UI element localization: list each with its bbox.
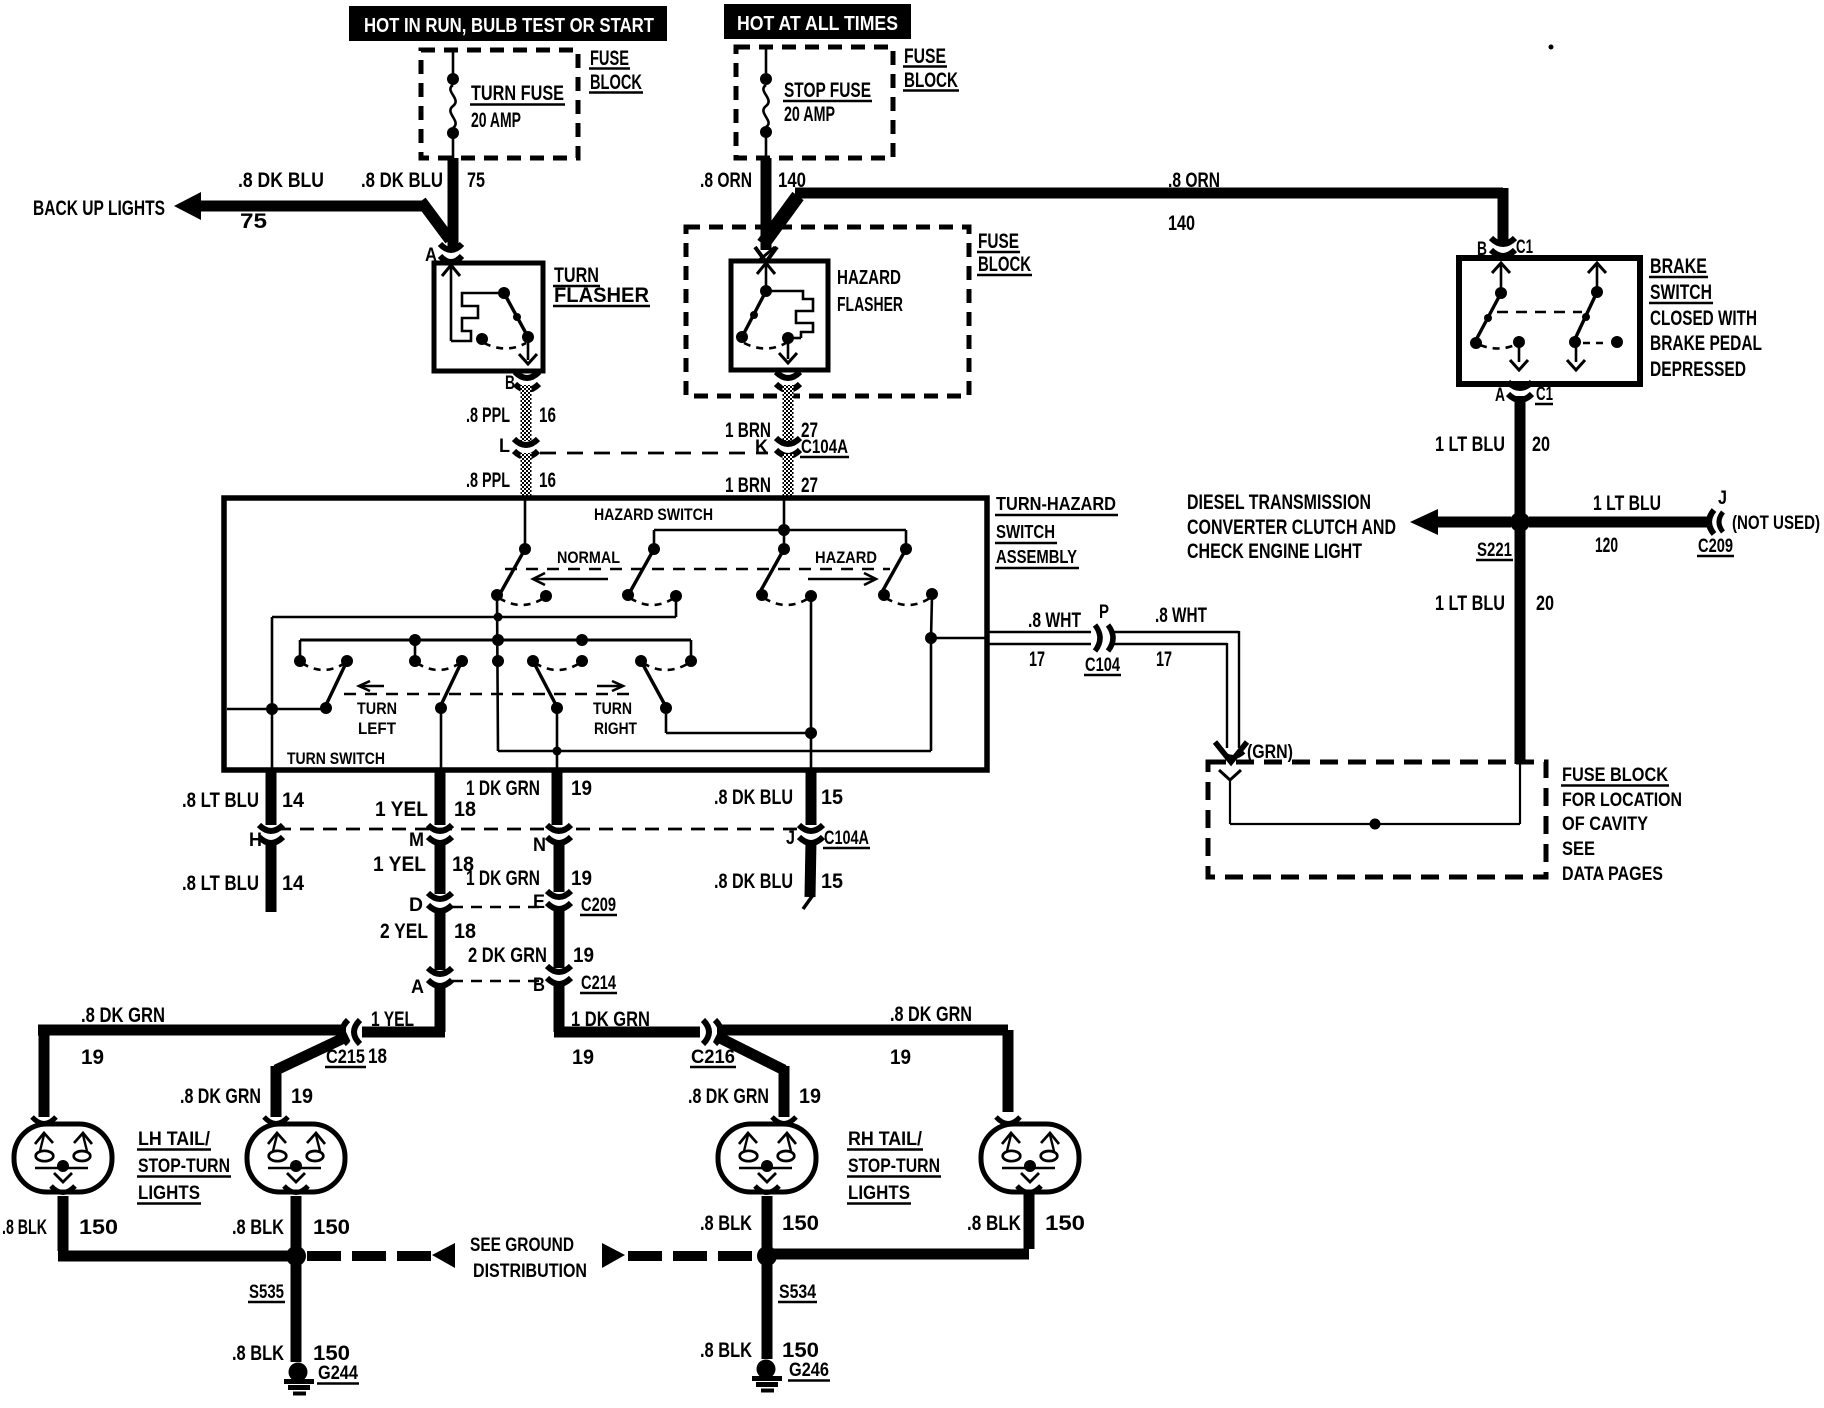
LH lamp label <box>137 1129 231 1204</box>
turn switch pole N blade <box>533 661 563 768</box>
diesel TCC note <box>1187 491 1396 563</box>
stray mark <box>1549 45 1554 50</box>
svg-text:16: 16 <box>539 469 556 492</box>
svg-text:DIESEL TRANSMISSION: DIESEL TRANSMISSION <box>1187 491 1371 514</box>
svg-text:LEFT: LEFT <box>358 719 397 738</box>
svg-text:SEE GROUND: SEE GROUND <box>470 1235 574 1256</box>
svg-text:.8 BLK: .8 BLK <box>232 1216 284 1239</box>
svg-text:G244: G244 <box>318 1363 358 1384</box>
svg-text:C1: C1 <box>1536 384 1553 405</box>
svg-text:TURN SWITCH: TURN SWITCH <box>287 749 385 768</box>
svg-text:STOP-TURN: STOP-TURN <box>848 1156 940 1177</box>
turn right blade <box>641 661 817 739</box>
svg-text:.8 DK GRN: .8 DK GRN <box>890 1003 972 1026</box>
wire .8 WHT 17 from switch assembly to connector P C104 <box>987 602 1121 676</box>
svg-text:(GRN): (GRN) <box>1247 742 1293 763</box>
svg-text:1 LT BLU: 1 LT BLU <box>1593 492 1661 515</box>
connector B C214 <box>533 966 617 996</box>
svg-text:2 DK GRN: 2 DK GRN <box>468 944 547 967</box>
svg-text:BACK UP LIGHTS: BACK UP LIGHTS <box>33 197 165 220</box>
svg-text:18: 18 <box>454 798 476 821</box>
fuse block label <box>903 45 959 92</box>
svg-text:140: 140 <box>1168 212 1195 235</box>
wire BRN entry and top bus of hazard switch <box>654 498 906 549</box>
svg-text:FLASHER: FLASHER <box>837 294 903 316</box>
wire 1 LT BLU 20 from brake switch <box>1435 396 1550 514</box>
turn left blade <box>320 661 347 714</box>
svg-text:1 YEL: 1 YEL <box>373 853 426 876</box>
hazard switch pole 3 blade and contacts <box>756 543 817 605</box>
svg-text:HAZARD SWITCH: HAZARD SWITCH <box>594 505 713 524</box>
splice S534 <box>757 1246 817 1303</box>
svg-text:20: 20 <box>1536 592 1554 615</box>
svg-text:18: 18 <box>368 1045 387 1068</box>
ground distribution dashed wire right <box>602 1243 760 1268</box>
connector at hazard flasher output <box>776 372 800 390</box>
fuse STOP FUSE 20 AMP <box>760 47 872 158</box>
svg-text:C104: C104 <box>1085 655 1120 676</box>
svg-text:LIGHTS: LIGHTS <box>138 1183 200 1204</box>
wire .8 DK GRN 19 to LH inner lamp <box>180 1036 348 1117</box>
svg-text:HOT IN RUN, BULB TEST OR START: HOT IN RUN, BULB TEST OR START <box>364 15 654 37</box>
svg-text:CHECK ENGINE LIGHT: CHECK ENGINE LIGHT <box>1187 540 1362 563</box>
wire .8 DK GRN 19 to LH outer lamp <box>38 1004 346 1117</box>
lamp LH outer tail/stop-turn connector bottom <box>51 1186 75 1193</box>
svg-text:20 AMP: 20 AMP <box>784 103 835 126</box>
svg-text:.8 WHT: .8 WHT <box>1155 604 1207 627</box>
wire 2 DK GRN 19 to connector B <box>468 907 594 968</box>
dashed connector line L to K <box>540 452 768 455</box>
brake switch mechanical link dashed <box>1497 311 1582 314</box>
svg-text:C1: C1 <box>1516 237 1533 258</box>
svg-text:HAZARD: HAZARD <box>815 548 877 567</box>
ground G246 <box>752 1360 830 1391</box>
svg-text:DEPRESSED: DEPRESSED <box>1650 358 1746 381</box>
svg-text:LIGHTS: LIGHTS <box>848 1183 910 1204</box>
turn switch pole M blade <box>435 661 462 768</box>
svg-text:C215: C215 <box>326 1047 365 1068</box>
wire 1 BRN 27 to connector K <box>725 385 818 442</box>
lamp RH inner tail/stop-turn bulb body <box>718 1124 816 1192</box>
connector E C209 <box>533 891 617 916</box>
svg-text:RIGHT: RIGHT <box>594 719 637 738</box>
svg-text:.8 WHT: .8 WHT <box>1028 609 1081 632</box>
svg-text:19: 19 <box>291 1085 313 1108</box>
svg-text:FUSE BLOCK: FUSE BLOCK <box>1562 765 1668 786</box>
svg-text:.8 ORN: .8 ORN <box>1168 169 1220 192</box>
svg-text:TURN: TURN <box>357 699 397 718</box>
hazard switch pole 4 blade and contacts <box>878 543 938 605</box>
svg-text:C104A: C104A <box>824 828 869 849</box>
svg-text:NORMAL: NORMAL <box>557 548 620 567</box>
switch section labels <box>287 699 637 768</box>
lamp LH inner tail/stop-turn bulb body <box>247 1124 345 1192</box>
svg-text:P: P <box>1099 602 1109 623</box>
svg-text:1 DK GRN: 1 DK GRN <box>466 777 540 800</box>
lamp RH outer tail/stop-turn connector bottom <box>1017 1186 1041 1193</box>
svg-text:.8 BLK: .8 BLK <box>232 1342 284 1365</box>
svg-text:19: 19 <box>799 1085 821 1108</box>
wire .8 BLK 150 below S535 <box>232 1256 350 1365</box>
svg-text:D: D <box>409 895 423 916</box>
svg-text:BRAKE PEDAL: BRAKE PEDAL <box>1650 332 1762 355</box>
connector N <box>533 825 571 856</box>
wire 1 DK GRN 19 to connector C216 <box>554 982 736 1069</box>
svg-text:.8 DK BLU: .8 DK BLU <box>361 169 443 192</box>
wire .8 LT BLU 14 stub <box>182 841 304 912</box>
svg-text:150: 150 <box>313 1342 350 1365</box>
fuse block (stop fuse) dashed enclosure <box>736 47 893 158</box>
svg-text:L: L <box>499 436 510 457</box>
svg-text:STOP FUSE: STOP FUSE <box>784 79 871 102</box>
svg-text:.8 LT BLU: .8 LT BLU <box>182 872 259 895</box>
connector C216 <box>703 1020 721 1044</box>
splice S221 <box>1476 512 1530 561</box>
svg-text:(NOT USED): (NOT USED) <box>1732 513 1820 534</box>
svg-text:2 YEL: 2 YEL <box>380 920 428 943</box>
svg-text:M: M <box>409 830 424 851</box>
fuse block (turn fuse) dashed enclosure <box>421 50 578 158</box>
svg-text:19: 19 <box>890 1046 911 1069</box>
svg-text:19: 19 <box>571 867 592 890</box>
splice S535 <box>248 1246 306 1303</box>
lamp LH inner tail/stop-turn connector top <box>264 1117 288 1124</box>
fuse block (hazard flasher) dashed enclosure <box>686 227 969 396</box>
wire .8 DK BLU 15 output <box>714 770 843 825</box>
svg-text:S221: S221 <box>1477 540 1512 561</box>
svg-text:J: J <box>1718 488 1727 509</box>
svg-text:1 YEL: 1 YEL <box>371 1008 414 1031</box>
svg-text:1 LT BLU: 1 LT BLU <box>1435 592 1505 615</box>
fuse block note <box>1561 765 1682 885</box>
hazard switch dashed link <box>505 568 890 571</box>
connector B C1 at brake switch <box>1477 237 1533 260</box>
hazard switch section label <box>557 505 877 567</box>
svg-text:150: 150 <box>1045 1212 1085 1235</box>
svg-text:H: H <box>249 830 262 851</box>
svg-text:C209: C209 <box>1698 536 1733 557</box>
svg-text:LH TAIL/: LH TAIL/ <box>138 1129 211 1150</box>
svg-text:.8 PPL: .8 PPL <box>466 469 510 492</box>
connector H <box>249 825 283 851</box>
wire .8 WHT 17 to GRN cavity arrow <box>1113 604 1293 763</box>
wire to diesel TCC arrow <box>1410 509 1511 535</box>
svg-text:.8 DK GRN: .8 DK GRN <box>180 1085 261 1108</box>
svg-text:150: 150 <box>782 1212 819 1235</box>
brake switch box <box>1459 258 1640 384</box>
svg-text:18: 18 <box>454 920 476 943</box>
svg-text:J: J <box>786 828 795 849</box>
svg-text:20 AMP: 20 AMP <box>471 109 521 132</box>
svg-text:G246: G246 <box>789 1360 829 1381</box>
wire inside fuse block <box>1219 764 1520 830</box>
connector M <box>409 825 452 851</box>
svg-text:19: 19 <box>81 1046 104 1069</box>
brake switch label <box>1649 255 1762 381</box>
connector A C214 <box>411 968 452 998</box>
brake switch pole 1 <box>1470 263 1528 370</box>
wire 1 YEL 18 to connector C215 <box>325 984 445 1068</box>
ground G244 <box>284 1363 359 1394</box>
svg-text:27: 27 <box>801 474 818 497</box>
turn switch row contacts and arcs <box>294 655 697 670</box>
svg-text:.8 ORN: .8 ORN <box>700 169 752 192</box>
turn switch common wire left <box>227 703 326 768</box>
svg-text:.8 BLK: .8 BLK <box>967 1212 1021 1235</box>
svg-text:BLOCK: BLOCK <box>904 69 958 92</box>
turn flasher U-TF box <box>434 263 650 371</box>
wire .8 BLK 150 from RH inner lamp <box>700 1196 819 1250</box>
svg-text:75: 75 <box>467 169 485 192</box>
lamp RH inner tail/stop-turn connector bottom <box>755 1186 779 1193</box>
svg-text:14: 14 <box>282 872 304 895</box>
dashed line A to B <box>452 980 547 983</box>
fuse block (cavity note) dashed enclosure <box>1208 762 1546 877</box>
ground distribution note <box>470 1235 587 1282</box>
lamp RH outer tail/stop-turn connector top <box>996 1117 1020 1124</box>
power feed banner HOT IN RUN <box>349 6 667 41</box>
connector A C1 below brake switch <box>1495 382 1553 406</box>
svg-text:B: B <box>505 373 515 394</box>
svg-text:C104A: C104A <box>801 437 848 458</box>
svg-text:1 DK GRN: 1 DK GRN <box>571 1008 650 1031</box>
normal arrow <box>533 573 608 585</box>
wire .8 BLK 150 from RH outer lamp <box>762 1194 1085 1254</box>
wire .8 BLK 150 from LH outer lamp <box>2 1196 296 1256</box>
svg-text:16: 16 <box>539 404 556 427</box>
wire 1 BRN 27 into switch assembly <box>725 454 818 498</box>
hazard switch pole 2 blade and contacts <box>622 543 682 605</box>
fuse block label <box>589 47 643 94</box>
svg-text:C214: C214 <box>581 973 616 994</box>
svg-text:1 BRN: 1 BRN <box>725 474 771 497</box>
svg-text:15: 15 <box>821 786 843 809</box>
svg-text:OF CAVITY: OF CAVITY <box>1562 814 1648 835</box>
wire 1 YEL 18 output <box>375 770 476 825</box>
turn right arrow <box>597 681 623 691</box>
connector C215 <box>342 1020 360 1044</box>
lamp LH inner tail/stop-turn filaments <box>268 1133 325 1182</box>
svg-text:N: N <box>533 835 546 856</box>
svg-text:C216: C216 <box>691 1047 735 1068</box>
svg-text:BRAKE: BRAKE <box>1650 255 1707 278</box>
dashed line D to E <box>452 906 547 909</box>
svg-text:.8 PPL: .8 PPL <box>466 404 510 427</box>
center pole wire from pole1 to hazard return <box>494 595 988 751</box>
svg-text:BLOCK: BLOCK <box>978 253 1031 276</box>
turn flasher internal element <box>442 265 537 364</box>
lamp RH inner tail/stop-turn filaments <box>739 1133 796 1182</box>
turn left arrow <box>359 681 384 691</box>
turn switch bus <box>300 634 691 660</box>
hazard flasher U-HF box <box>731 261 903 370</box>
svg-text:RH TAIL/: RH TAIL/ <box>848 1129 923 1150</box>
svg-text:TURN FUSE: TURN FUSE <box>471 82 564 105</box>
fuse block label <box>977 230 1032 276</box>
svg-text:1 DK GRN: 1 DK GRN <box>466 867 540 890</box>
svg-text:STOP-TURN: STOP-TURN <box>138 1156 230 1177</box>
wire to BACK UP LIGHTS with arrow <box>33 169 450 240</box>
svg-text:17: 17 <box>1156 648 1172 671</box>
connector L C104A <box>499 436 538 457</box>
svg-text:150: 150 <box>782 1339 819 1362</box>
svg-text:15: 15 <box>821 870 843 893</box>
svg-text:17: 17 <box>1029 648 1045 671</box>
connector K C104A <box>755 437 849 458</box>
svg-text:FUSE: FUSE <box>904 45 946 68</box>
svg-text:B: B <box>533 975 545 996</box>
svg-text:CLOSED WITH: CLOSED WITH <box>1650 307 1757 330</box>
connector D <box>409 893 452 916</box>
wire .8 WHT takeoff node <box>492 634 504 646</box>
svg-text:TURN-HAZARD: TURN-HAZARD <box>996 494 1116 514</box>
wire .8 BLK 150 below S534 <box>700 1256 819 1362</box>
svg-text:.8 BLK: .8 BLK <box>700 1212 752 1235</box>
wire 1 YEL 18 to connector D <box>373 841 474 894</box>
connector row dashed line C104A <box>277 828 800 831</box>
wire .8 DK BLU 15 stub <box>714 841 843 909</box>
wire .8 ORN 140 from stop fuse <box>700 158 806 250</box>
svg-text:.8 DK GRN: .8 DK GRN <box>81 1004 165 1027</box>
svg-text:DATA PAGES: DATA PAGES <box>1562 864 1663 885</box>
hazard arrow <box>808 573 876 585</box>
svg-text:.8 DK GRN: .8 DK GRN <box>688 1085 769 1108</box>
lamp LH outer tail/stop-turn bulb body <box>14 1124 112 1192</box>
svg-text:SWITCH: SWITCH <box>1650 281 1712 304</box>
svg-text:.8 BLK: .8 BLK <box>2 1216 47 1239</box>
svg-text:SWITCH: SWITCH <box>996 522 1055 542</box>
wire .8 LT BLU 14 output <box>182 770 304 825</box>
svg-text:BLOCK: BLOCK <box>590 71 642 94</box>
wire .8 PPL 16 to connector L <box>466 385 556 441</box>
svg-text:1 LT BLU: 1 LT BLU <box>1435 433 1505 456</box>
lamp RH outer tail/stop-turn filaments <box>1002 1133 1059 1182</box>
wire 1 DK GRN 19 to connector E <box>466 841 592 892</box>
connector A at turn flasher <box>425 244 462 266</box>
svg-text:19: 19 <box>572 1046 594 1069</box>
brake switch pole 2 <box>1567 263 1623 370</box>
svg-text:E: E <box>533 892 545 913</box>
svg-text:FOR LOCATION: FOR LOCATION <box>1562 790 1682 811</box>
svg-text:HAZARD: HAZARD <box>837 267 901 289</box>
connector B at turn flasher <box>505 372 539 394</box>
wire hazard pole3 contact down to output <box>810 596 813 768</box>
svg-text:K: K <box>755 437 768 458</box>
svg-text:C209: C209 <box>581 895 616 916</box>
svg-text:150: 150 <box>79 1216 118 1239</box>
svg-text:.8 DK BLU: .8 DK BLU <box>714 870 793 893</box>
svg-text:20: 20 <box>1532 433 1550 456</box>
svg-text:FUSE: FUSE <box>978 230 1019 253</box>
ground distribution dashed wire left <box>307 1243 455 1268</box>
connector J C104A <box>786 825 870 849</box>
svg-text:150: 150 <box>313 1216 350 1239</box>
svg-text:FLASHER: FLASHER <box>554 284 649 307</box>
arrowhead into hazard flasher <box>755 247 777 262</box>
hazard flasher internal element <box>736 263 813 363</box>
wire PPL entry to hazard switch pole 1 <box>519 498 531 555</box>
svg-text:19: 19 <box>571 777 592 800</box>
wire .8 DK GRN 19 to RH inner lamp <box>688 1036 821 1117</box>
svg-text:SEE: SEE <box>1562 839 1595 860</box>
wire 1 DK GRN 19 output <box>466 770 592 825</box>
turn-hazard switch assembly box <box>224 494 1118 770</box>
svg-text:A: A <box>1495 385 1505 406</box>
connector P <box>1095 625 1113 651</box>
svg-text:.8 DK BLU: .8 DK BLU <box>238 169 324 192</box>
svg-text:19: 19 <box>573 944 594 967</box>
svg-text:75: 75 <box>240 210 267 233</box>
fuse TURN FUSE 20 AMP <box>447 50 565 158</box>
wire .8 DK GRN 19 to RH outer lamp <box>717 1003 1008 1112</box>
lamp LH inner tail/stop-turn connector bottom <box>284 1186 308 1193</box>
wire 1 LT BLU 20 down to fuse block <box>1435 530 1554 764</box>
svg-text:FUSE: FUSE <box>590 47 629 70</box>
wire .8 DK BLU 75 from turn fuse <box>361 158 485 247</box>
svg-text:1 YEL: 1 YEL <box>375 798 428 821</box>
lamp LH outer tail/stop-turn filaments <box>35 1133 92 1182</box>
RH lamp label <box>847 1129 941 1204</box>
svg-text:.8 BLK: .8 BLK <box>700 1339 752 1362</box>
svg-text:S535: S535 <box>249 1282 284 1303</box>
wire .8 ORN 140 to brake switch <box>763 169 1503 244</box>
hazard switch pole 1 blade and contacts <box>491 549 552 605</box>
lamp RH outer tail/stop-turn bulb body <box>981 1124 1079 1192</box>
svg-text:A: A <box>411 977 424 998</box>
svg-text:.8 DK BLU: .8 DK BLU <box>714 786 793 809</box>
svg-text:14: 14 <box>282 789 304 812</box>
svg-text:120: 120 <box>1595 534 1618 557</box>
wire 2 YEL 18 to connector A <box>380 909 476 970</box>
svg-text:TURN: TURN <box>593 699 632 718</box>
lamp RH inner tail/stop-turn connector top <box>772 1117 796 1124</box>
wire pole2 contact to turn switch common <box>272 596 676 709</box>
lamp LH outer tail/stop-turn connector top <box>32 1117 56 1124</box>
turn switch dashed link <box>344 693 636 696</box>
svg-text:S534: S534 <box>779 1282 816 1303</box>
wire 1 LT BLU 120 to connector J C209 not used <box>1529 488 1820 557</box>
svg-text:ASSEMBLY: ASSEMBLY <box>996 547 1077 567</box>
svg-text:DISTRIBUTION: DISTRIBUTION <box>473 1261 587 1282</box>
svg-text:.8 LT BLU: .8 LT BLU <box>182 789 259 812</box>
wire .8 PPL 16 into switch assembly <box>466 453 556 498</box>
power feed banner HOT AT ALL TIMES <box>724 4 911 39</box>
svg-text:CONVERTER CLUTCH AND: CONVERTER CLUTCH AND <box>1187 516 1396 539</box>
svg-text:HOT AT ALL TIMES: HOT AT ALL TIMES <box>737 13 898 35</box>
wire .8 BLK 150 from LH inner lamp <box>232 1196 350 1250</box>
